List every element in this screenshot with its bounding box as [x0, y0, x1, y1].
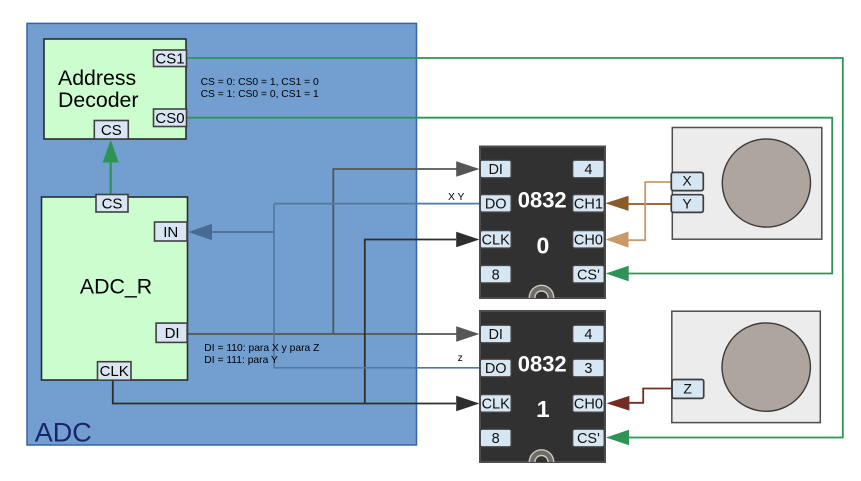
- svg-text:Z: Z: [683, 380, 692, 396]
- svg-text:CLK: CLK: [482, 233, 511, 249]
- svg-text:CS = 0: CS0 = 1, CS1 = 0: CS = 0: CS0 = 1, CS1 = 0: [201, 77, 319, 88]
- pin CLK: [98, 362, 132, 381]
- svg-text:X Y: X Y: [448, 192, 465, 203]
- pin Z: [672, 380, 704, 399]
- svg-text:3: 3: [584, 361, 592, 377]
- pin DI chip1: [480, 325, 511, 343]
- pin CH1 chip0: [573, 195, 605, 213]
- wire X to CH0 (tan): [629, 182, 672, 240]
- pin CH0 chip0: [573, 231, 605, 249]
- svg-text:CLK: CLK: [482, 397, 511, 413]
- svg-text:CS = 1: CS0 = 0, CS1 = 1: CS = 1: CS0 = 0, CS1 = 1: [201, 89, 319, 100]
- Address Decoder block: [44, 39, 186, 139]
- arrowhead CH0 chip0: [606, 232, 629, 248]
- joystick 2 box: [672, 311, 821, 422]
- pin 4 chip1: [573, 325, 605, 343]
- wire CLK branch up to chip 0 CLK: [365, 240, 456, 404]
- svg-text:CH1: CH1: [574, 197, 603, 213]
- wire Z to CH0 of chip 1 (maroon): [629, 389, 672, 403]
- chip 0832 #0: [480, 147, 605, 299]
- arrowhead DI chip1: [456, 326, 479, 342]
- arrowhead CLK chip1: [456, 396, 479, 412]
- arrowhead CS' chip1 (green): [606, 430, 629, 446]
- wire to IN (dark blue): [211, 231, 274, 233]
- pin DI chip0: [480, 160, 511, 178]
- wire CS1 to CS' of chip 1 (green): [187, 58, 843, 438]
- svg-text:4: 4: [584, 162, 592, 178]
- vertical DO bus: [273, 204, 275, 368]
- wire CS0 to CS' of chip 0 (green): [187, 118, 833, 274]
- svg-text:Decoder: Decoder: [58, 88, 139, 112]
- wire DO chip1 (blue, z): [274, 367, 481, 369]
- arrowhead CLK chip0: [456, 232, 479, 248]
- svg-text:CS': CS': [577, 431, 600, 447]
- pin X: [671, 172, 703, 190]
- joystick 2 knob: [722, 323, 810, 411]
- ADC_R block: [42, 197, 188, 380]
- svg-text:CS: CS: [102, 196, 123, 213]
- pin CH0 chip1: [573, 395, 605, 413]
- svg-text:DI = 110: para X y para Z: DI = 110: para X y para Z: [204, 343, 319, 354]
- wire Y to CH1 (brown): [629, 203, 672, 205]
- joystick 1 knob: [722, 139, 810, 227]
- pin IN: [155, 222, 188, 241]
- svg-text:CH0: CH0: [574, 397, 603, 413]
- pin CS of Address Decoder: [94, 121, 128, 140]
- svg-text:Y: Y: [682, 195, 692, 211]
- wire CLK from ADC_R CLK to chip 1 CLK: [113, 378, 456, 404]
- arrowhead CS' chip0 (green): [606, 266, 629, 282]
- pin CLK chip0: [480, 231, 511, 249]
- svg-text:DI = 111: para Y: DI = 111: para Y: [204, 355, 278, 366]
- pin CS1: [154, 50, 187, 67]
- joystick 1 box: [672, 128, 822, 240]
- chip 0832 #1: [480, 311, 605, 462]
- svg-text:DO: DO: [485, 197, 507, 213]
- svg-text:ADC: ADC: [35, 417, 92, 447]
- svg-text:DI: DI: [488, 162, 503, 178]
- chip 0 notch: [529, 285, 553, 309]
- chip 1 notch: [529, 450, 553, 474]
- svg-text:8: 8: [492, 267, 500, 283]
- svg-text:z: z: [458, 353, 463, 364]
- wire CS from ADC_R CS up to Address Decoder CS: [110, 161, 112, 195]
- svg-text:X: X: [682, 173, 692, 189]
- svg-text:IN: IN: [163, 224, 178, 241]
- svg-text:CS': CS': [577, 267, 600, 283]
- arrowhead CH0 chip1: [606, 396, 629, 411]
- pin CS' chip0: [573, 265, 605, 283]
- pin CS' chip1: [573, 429, 605, 447]
- pin CS of ADC_R: [96, 195, 128, 213]
- pin 8 chip1: [480, 429, 511, 447]
- pin DO chip0: [480, 195, 511, 213]
- svg-text:DO: DO: [485, 361, 507, 377]
- svg-text:Address: Address: [58, 66, 136, 90]
- svg-text:0832: 0832: [518, 188, 567, 213]
- svg-text:CS0: CS0: [155, 110, 184, 127]
- svg-text:ADC_R: ADC_R: [80, 275, 152, 299]
- arrowhead IN: [188, 224, 212, 240]
- svg-text:CH0: CH0: [574, 233, 603, 249]
- svg-text:1: 1: [537, 396, 550, 422]
- svg-text:CS: CS: [101, 122, 122, 139]
- arrowhead DI chip0: [456, 161, 479, 177]
- pin DI: [156, 323, 187, 342]
- svg-text:0: 0: [537, 232, 550, 258]
- wire DI branch up to chip 0 DI: [333, 169, 458, 334]
- pin 4 chip0: [573, 160, 605, 178]
- svg-text:CLK: CLK: [100, 363, 129, 380]
- pin Y: [671, 195, 703, 213]
- svg-text:DI: DI: [488, 327, 503, 343]
- wire DI from ADC_R DI to chip 1 DI: [187, 333, 458, 335]
- ADC block background: [27, 23, 417, 445]
- arrowhead CH1: [605, 196, 628, 211]
- svg-text:0832: 0832: [518, 352, 567, 377]
- arrowhead CS (green, up): [103, 140, 119, 163]
- pin 8 chip0: [480, 265, 511, 283]
- pin DO chip1: [480, 359, 511, 377]
- wire DO chip0 (blue, X Y): [274, 203, 481, 205]
- pin CS0: [154, 109, 187, 127]
- pin CLK chip1: [480, 395, 511, 413]
- svg-text:8: 8: [492, 431, 500, 447]
- svg-text:DI: DI: [165, 325, 180, 342]
- svg-text:4: 4: [584, 327, 592, 343]
- pin 3 chip1: [573, 359, 605, 377]
- svg-text:CS1: CS1: [155, 50, 184, 67]
